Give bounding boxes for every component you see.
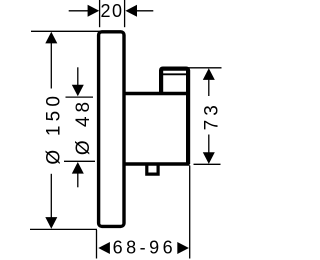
- svg-text:73: 73: [201, 101, 222, 130]
- svg-text:Ø 150: Ø 150: [43, 92, 64, 165]
- svg-text:Ø 48: Ø 48: [73, 98, 94, 155]
- svg-text:68-96: 68-96: [113, 238, 177, 258]
- svg-text:20: 20: [100, 1, 123, 21]
